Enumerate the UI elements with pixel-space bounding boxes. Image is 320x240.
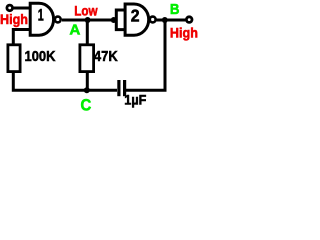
svg-text:47K: 47K [94, 48, 118, 65]
svg-text:2: 2 [131, 6, 140, 26]
svg-text:A: A [69, 21, 80, 38]
svg-text:B: B [170, 2, 180, 18]
svg-text:C: C [81, 95, 92, 113]
svg-text:100K: 100K [25, 48, 56, 65]
svg-text:High: High [0, 11, 28, 27]
svg-text:Low: Low [74, 3, 97, 19]
svg-text:1: 1 [38, 6, 44, 25]
svg-text:High: High [170, 24, 198, 40]
svg-text:1µF: 1µF [124, 92, 146, 107]
